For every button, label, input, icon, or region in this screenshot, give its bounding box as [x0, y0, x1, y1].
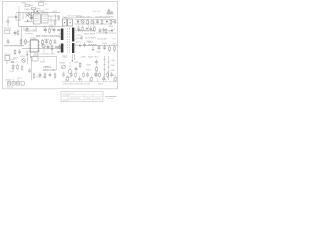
resistor R631	[96, 66, 98, 73]
transistor Q101	[20, 56, 26, 71]
svg-text:R624: R624	[108, 31, 114, 33]
node +15V	[112, 44, 118, 46]
svg-text:C616 R621: C616 R621	[85, 38, 97, 40]
right col text	[113, 22, 115, 32]
IC601 box	[29, 38, 41, 52]
capacitor C618	[96, 45, 102, 54]
label row center low	[34, 49, 59, 56]
svg-text:R653: R653	[98, 83, 104, 85]
node +300V	[80, 57, 87, 59]
transformer T602 secondary	[72, 28, 76, 54]
resistor R110	[10, 64, 16, 73]
svg-text:D101: D101	[24, 9, 30, 11]
wire left riser	[21, 26, 23, 45]
wire low bus	[30, 57, 57, 70]
capacitor C602	[44, 27, 47, 32]
bottom strip wire	[62, 79, 117, 82]
wire mid right	[96, 32, 116, 34]
wire left col	[28, 52, 32, 80]
capacitor C617	[83, 42, 86, 47]
transistor Q603	[42, 44, 45, 47]
resistor R617	[110, 17, 116, 26]
svg-text:R115 C118: R115 C118	[36, 77, 47, 79]
resistor R629	[54, 72, 56, 78]
svg-text:VR601: VR601	[59, 63, 66, 65]
svg-text:D607 R611: D607 R611	[45, 54, 56, 56]
wire sec out2	[75, 45, 119, 47]
diode D605	[108, 26, 114, 33]
relay RY101	[33, 12, 40, 24]
svg-text:R617: R617	[110, 17, 116, 19]
svg-text:BB-1085: BB-1085	[93, 11, 102, 13]
svg-text:IC601: IC601	[31, 38, 38, 40]
photocoupler PC101	[5, 54, 12, 64]
diode D606	[56, 46, 58, 48]
resistor R620	[105, 28, 107, 34]
diode D106	[10, 59, 16, 63]
svg-text:R615: R615	[87, 17, 93, 19]
IC101 box	[42, 12, 49, 23]
svg-text:D106: D106	[10, 59, 16, 61]
svg-text:R604 D604 C609 R609: R604 D604 C609 R609	[36, 36, 61, 38]
resistor R627	[33, 72, 35, 78]
capacitor C613	[114, 19, 117, 24]
transformer T602 primary	[59, 27, 64, 53]
svg-text:T602: T602	[62, 56, 68, 58]
label VR601	[40, 59, 56, 72]
ground sym 1	[26, 50, 29, 56]
wire center bus	[22, 49, 62, 59]
connector CN101	[4, 29, 12, 34]
resistor R111	[17, 64, 19, 71]
label C616 R621	[76, 35, 83, 41]
label row right mid	[84, 31, 97, 44]
bottom labels 2	[5, 78, 23, 89]
resistor R605	[42, 39, 50, 46]
svg-text:SW601: SW601	[39, 1, 46, 3]
svg-text:+300V: +300V	[80, 57, 87, 59]
resistor R615	[87, 17, 93, 26]
capacitor C608	[54, 39, 57, 44]
label row right low	[86, 57, 99, 72]
svg-text:PC601: PC601	[33, 55, 40, 57]
svg-text:R6: R6	[113, 22, 115, 24]
wire box outputs	[48, 16, 60, 23]
wire sec top bus	[64, 15, 116, 31]
wire 300V riser	[71, 54, 74, 62]
svg-text:T601: T601	[62, 17, 68, 19]
resistor R108	[20, 38, 29, 45]
svg-text:C611 D609: C611 D609	[97, 39, 108, 41]
shunt IC602	[66, 62, 72, 79]
logo mark	[107, 9, 113, 14]
stub wires bus2	[24, 26, 52, 31]
capacitor C619	[102, 43, 108, 50]
transformer T602 core	[67, 28, 69, 53]
resistor R608	[51, 44, 53, 50]
capacitor C621	[39, 72, 42, 77]
wire vert rail A	[104, 56, 106, 80]
diode D611	[79, 45, 81, 47]
wire sec out1	[75, 30, 94, 32]
svg-text:C613: C613	[108, 26, 114, 28]
fuse F101	[22, 3, 34, 7]
resistor R616	[100, 17, 106, 26]
output cap bank	[62, 72, 116, 83]
capacitor C607	[45, 39, 48, 44]
ground sym 2	[92, 46, 95, 51]
capacitor C603	[53, 27, 56, 32]
diode D603	[105, 17, 111, 23]
capacitor C112	[28, 68, 31, 73]
capacitor C631	[95, 72, 98, 77]
svg-text:Q601: Q601	[80, 17, 86, 19]
resistor R109	[13, 49, 21, 60]
resistor R104	[49, 11, 61, 27]
resistor R628	[44, 72, 46, 78]
transistor Q601	[80, 17, 86, 24]
wire bus2	[18, 25, 60, 27]
svg-text:RY101: RY101	[33, 12, 40, 14]
capacitor C610	[47, 44, 50, 49]
svg-text:R640 C641: R640 C641	[88, 57, 99, 59]
svg-text:Q101: Q101	[20, 56, 26, 58]
tick marks rail	[103, 60, 110, 75]
svg-text:R626 C605: R626 C605	[43, 69, 56, 72]
svg-text:GND IN: GND IN	[6, 86, 14, 88]
svg-text:PC101: PC101	[5, 54, 12, 56]
resistor R602	[49, 27, 51, 33]
faint top right text	[93, 11, 102, 13]
bottom labels	[63, 83, 104, 85]
capacitor C622	[49, 72, 52, 77]
resistor R606	[50, 39, 52, 46]
svg-text:+15V: +15V	[112, 44, 118, 46]
resistor R102	[17, 29, 19, 35]
diode D602	[58, 29, 60, 31]
svg-text:IC101: IC101	[42, 12, 49, 14]
capacitor C109	[7, 39, 10, 44]
label T602	[62, 56, 68, 58]
label box top	[39, 1, 48, 5]
opto PC601	[32, 55, 40, 61]
capacitor C612	[95, 17, 101, 25]
bridge rectifier D101	[15, 9, 37, 22]
resistor R623	[114, 45, 116, 52]
label right col2	[113, 39, 115, 41]
svg-text:D604 R619: D604 R619	[84, 34, 96, 36]
choke L602	[76, 42, 97, 46]
varistor ZNR101	[7, 17, 17, 27]
svg-text:C650 R650 C651 R651 C652: C650 R650 C651 R651 C652	[63, 83, 91, 85]
wire vert rail B	[108, 56, 110, 80]
label row mid	[25, 26, 38, 33]
label row mid2	[36, 36, 61, 38]
thermistor TH101	[37, 9, 50, 13]
inductor L101	[32, 7, 41, 9]
bottom mid text	[36, 77, 47, 79]
svg-text:R6: R6	[113, 39, 115, 41]
capacitor C106	[14, 30, 17, 35]
connector T601	[62, 17, 72, 26]
svg-text:C104: C104	[31, 9, 37, 11]
label col right	[111, 60, 117, 77]
capacitor C611	[58, 44, 61, 49]
capacitor C630	[95, 59, 98, 64]
second row comps	[77, 26, 95, 32]
wire AC bus	[16, 6, 60, 26]
diode D610	[79, 30, 81, 32]
wire mid-left bus	[4, 45, 24, 47]
pot VR602	[59, 63, 66, 69]
resistor R622	[109, 45, 111, 52]
transistor Q602	[91, 20, 94, 23]
connector CN102	[8, 79, 25, 85]
diode D601	[76, 17, 82, 23]
capacitor C615	[97, 27, 108, 40]
capacitor C624	[74, 62, 81, 72]
